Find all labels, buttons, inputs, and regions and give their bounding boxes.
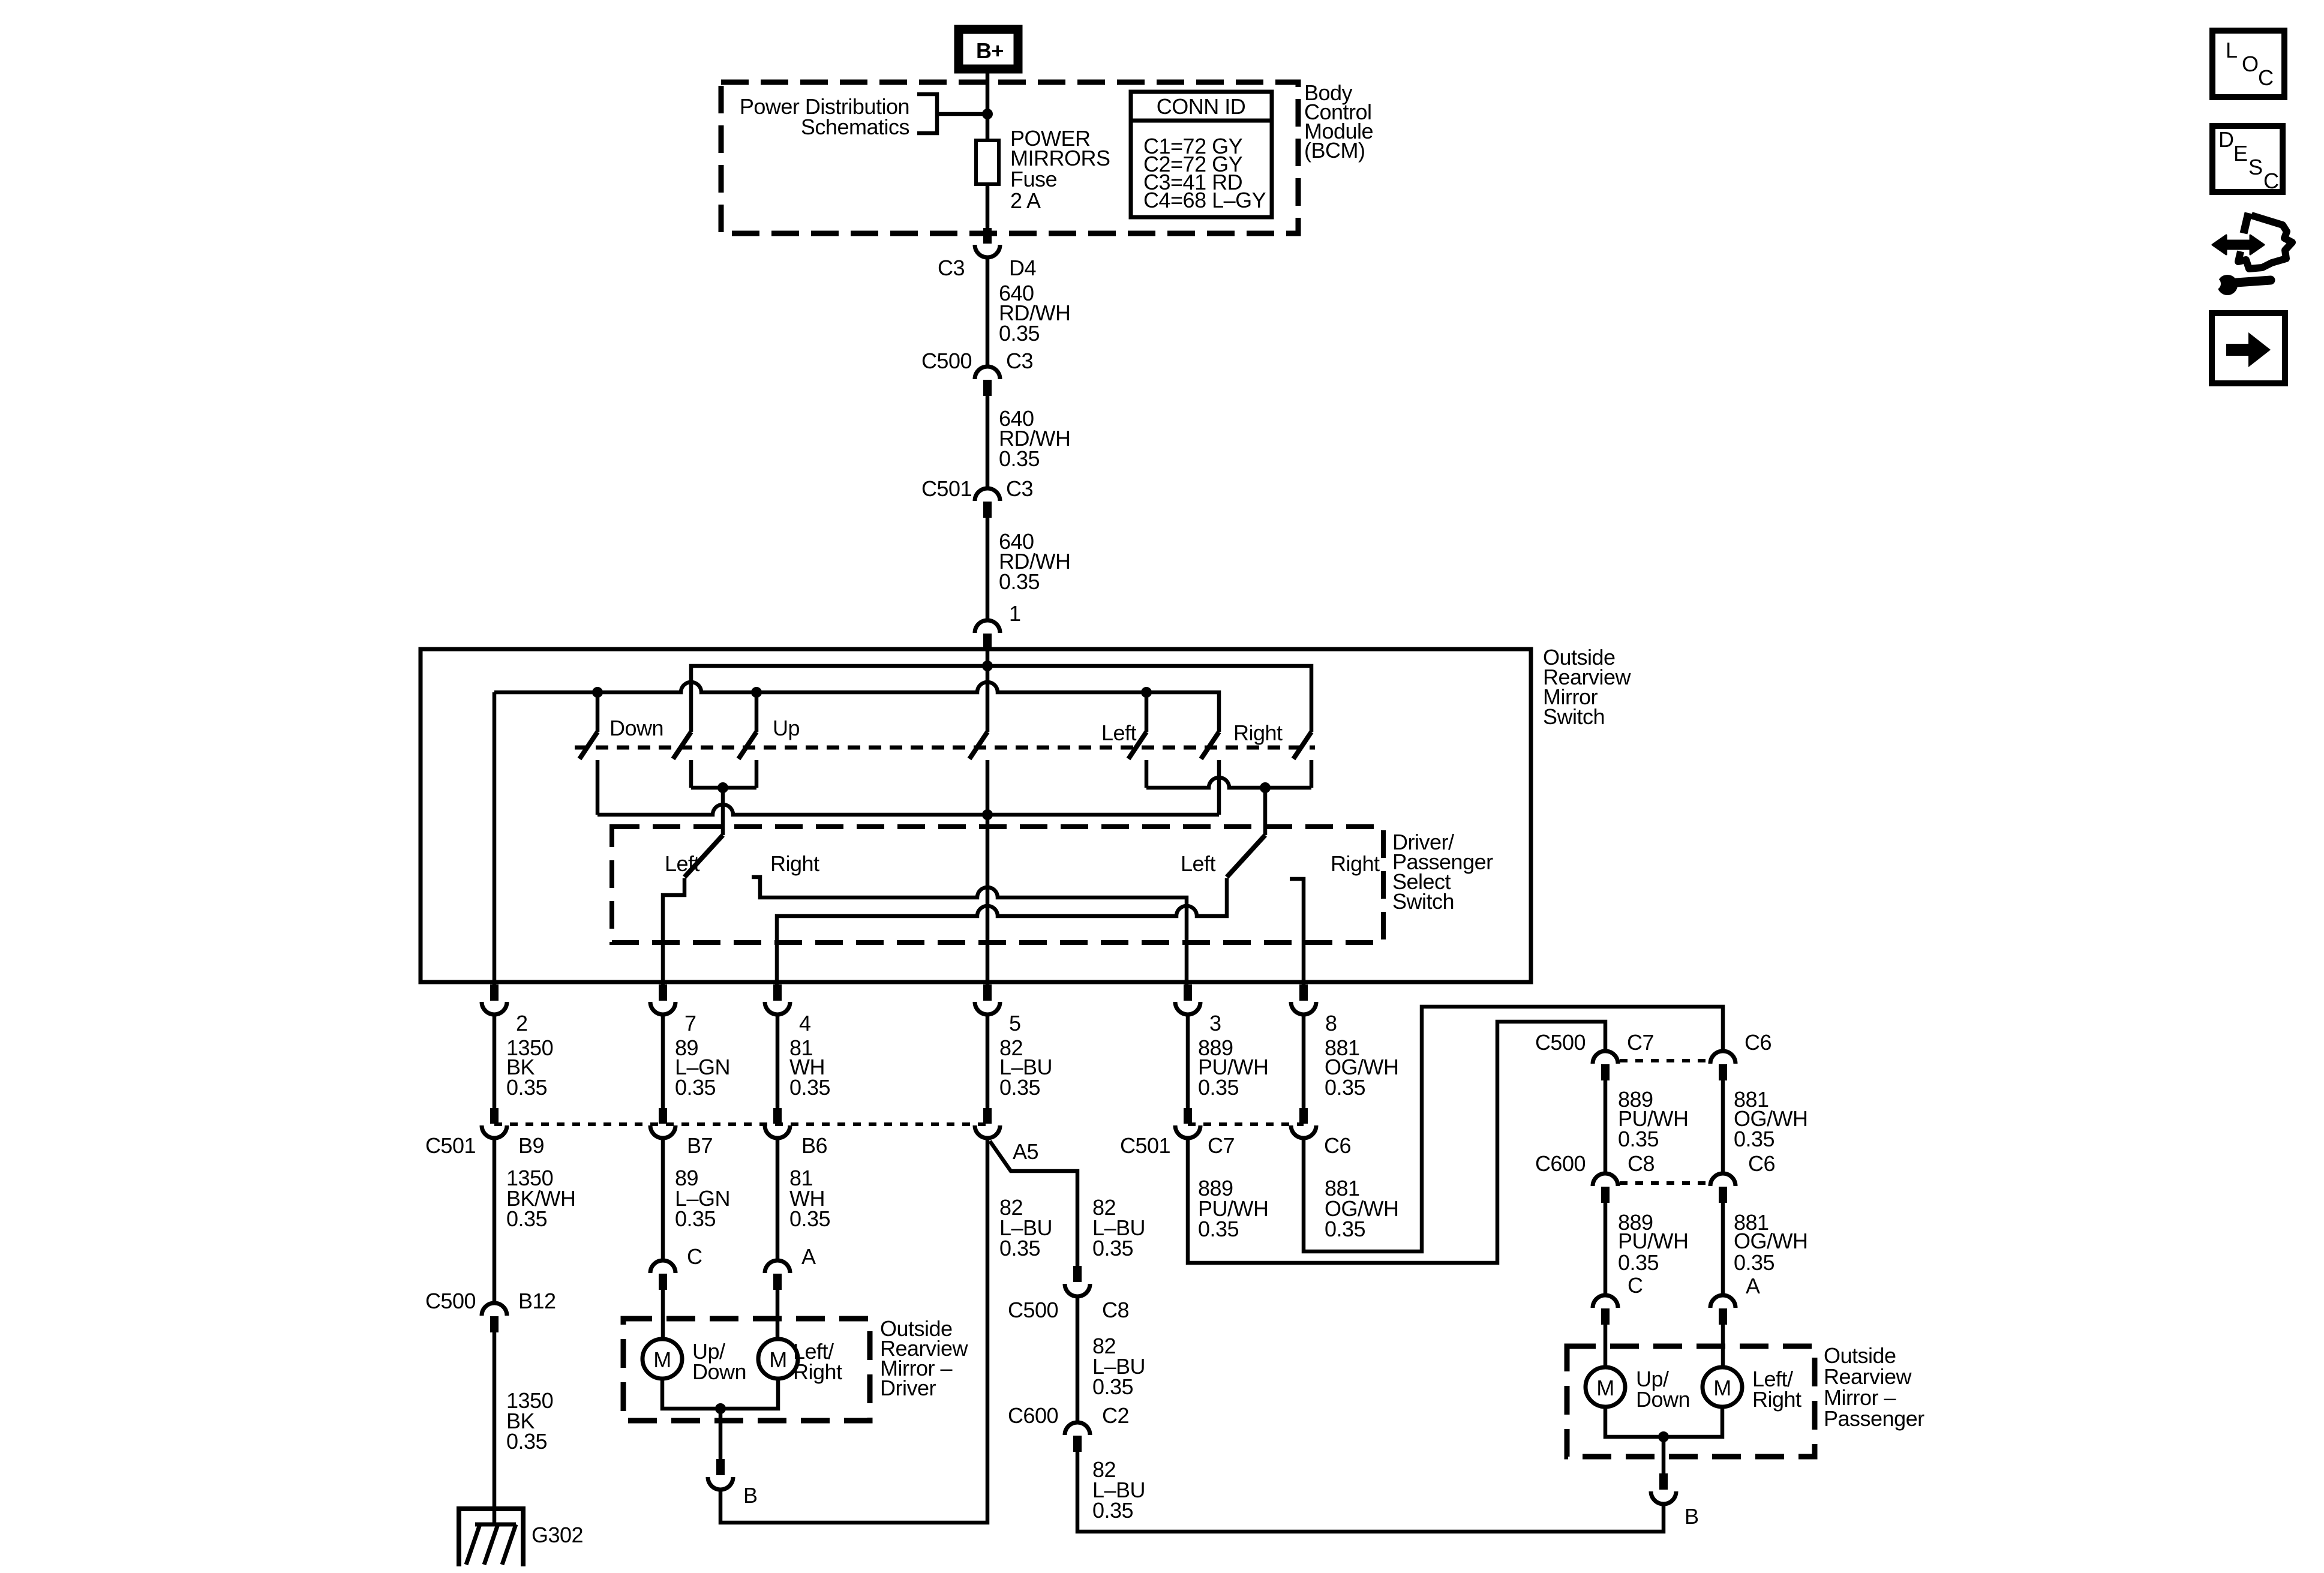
svg-text:2: 2 bbox=[516, 1011, 528, 1035]
connector A driver mirror bbox=[765, 1260, 790, 1290]
svg-text:OG/WH: OG/WH bbox=[1734, 1229, 1807, 1253]
svg-text:C6: C6 bbox=[1744, 1030, 1771, 1055]
connector C driver mirror bbox=[650, 1260, 675, 1290]
svg-text:Fuse: Fuse bbox=[1010, 167, 1057, 191]
connector C501 pin A5 bbox=[975, 1108, 1000, 1138]
wire pin 2 drop from rail B bbox=[493, 692, 497, 984]
label wire 82 L-BU 0.35 bbox=[1092, 1457, 1145, 1523]
motor M up/down driver bbox=[642, 1339, 682, 1379]
wire pin 3 to C501 bbox=[1186, 1014, 1190, 1109]
wire U1 bracket bottom bbox=[691, 786, 756, 790]
connector C3 pin D4 (BCM output) bbox=[975, 228, 1000, 257]
label wire 82 L-BU 0.35 bbox=[999, 1035, 1052, 1100]
wire 889 PU/WH C600 to C bbox=[1604, 1203, 1608, 1294]
Outside Rearview Mirror Switch box bbox=[421, 649, 1531, 982]
wire passenger common to connector B bbox=[1662, 1437, 1666, 1473]
junction dot Up contact bbox=[751, 687, 762, 698]
label Up/ Down bbox=[692, 1339, 746, 1384]
svg-text:2 A: 2 A bbox=[1010, 188, 1041, 213]
svg-text:5: 5 bbox=[1009, 1011, 1021, 1035]
wire Down upper stub bbox=[596, 692, 600, 732]
svg-text:M: M bbox=[1713, 1376, 1731, 1400]
label wire 82 L-BU 0.35 (left branch) bbox=[999, 1195, 1052, 1260]
svg-text:C500: C500 bbox=[921, 349, 972, 373]
svg-text:C3: C3 bbox=[938, 256, 965, 280]
label wire 1350 BK/WH 0.35 bbox=[506, 1166, 576, 1231]
svg-text:S: S bbox=[2248, 155, 2263, 179]
svg-text:A: A bbox=[801, 1244, 816, 1269]
svg-text:C: C bbox=[687, 1244, 702, 1269]
svg-text:0.35: 0.35 bbox=[675, 1206, 716, 1231]
label Outside Rearview Mirror - Passenger bbox=[1824, 1343, 1924, 1431]
wire rail B with hops bbox=[494, 682, 1219, 732]
wire 1350 BK to ground bbox=[493, 1332, 497, 1523]
wire pin 3 run to C500 C7 bbox=[1188, 1022, 1605, 1263]
label 640 RD/WH 0.35 bbox=[999, 529, 1070, 594]
svg-text:0.35: 0.35 bbox=[1618, 1127, 1659, 1151]
wire driver common to connector B bbox=[719, 1409, 723, 1459]
svg-text:Switch: Switch bbox=[1392, 889, 1454, 914]
label wire 81 WH 0.35 bbox=[789, 1035, 830, 1100]
wire pin 8 to C501 bbox=[1302, 1014, 1306, 1109]
label 640 RD/WH 0.35 bbox=[999, 281, 1070, 346]
connector B passenger mirror bbox=[1651, 1473, 1676, 1504]
wire C to passenger motor M up/down bbox=[1604, 1325, 1608, 1369]
svg-text:A: A bbox=[1746, 1274, 1760, 1298]
wire 640 RD/WH segment 1 bbox=[986, 257, 990, 367]
svg-text:C3: C3 bbox=[1006, 476, 1033, 501]
switch blade center vertical pair bbox=[673, 732, 691, 759]
wire driver B to A5 junction bbox=[720, 1137, 987, 1523]
connector C500 dashed segment C7-C6 bbox=[1620, 1059, 1710, 1062]
icon forward arrow box bbox=[2212, 313, 2285, 383]
junction dot Down contact bbox=[592, 687, 603, 698]
connector C500 pin C6 passenger bbox=[1710, 1051, 1736, 1080]
switch blade Down bbox=[580, 732, 597, 759]
svg-text:CONN ID: CONN ID bbox=[1157, 94, 1246, 119]
connector C500 pin C3 bbox=[975, 367, 1000, 396]
connector C501 pin B9 bbox=[482, 1108, 507, 1138]
label Outside Rearview Mirror Switch bbox=[1543, 645, 1632, 729]
svg-text:0.35: 0.35 bbox=[506, 1206, 547, 1231]
switch blade Left bbox=[1128, 732, 1146, 759]
junction dot node B+ feed bbox=[982, 109, 993, 119]
label wire 89 L-GN 0.35 bbox=[675, 1166, 730, 1231]
wire 640 RD/WH segment 2 bbox=[986, 396, 990, 488]
svg-text:4: 4 bbox=[799, 1011, 811, 1035]
svg-text:Up: Up bbox=[773, 716, 800, 740]
wire rail A bbox=[691, 666, 1311, 732]
wire main supply vertical into switch bbox=[986, 649, 990, 732]
label Left/ Right bbox=[793, 1339, 842, 1384]
wire select driver Right contact to pin 3 bbox=[752, 877, 1187, 984]
motor M up/down passenger bbox=[1586, 1367, 1625, 1407]
svg-text:C600: C600 bbox=[1008, 1403, 1058, 1428]
svg-text:0.35: 0.35 bbox=[1092, 1374, 1133, 1399]
svg-text:E: E bbox=[2233, 141, 2248, 166]
svg-text:0.35: 0.35 bbox=[999, 569, 1040, 594]
wire 881 OG/WH C600 to A bbox=[1721, 1203, 1725, 1294]
connector pin 7 of switch bbox=[650, 984, 675, 1014]
svg-text:0.35: 0.35 bbox=[789, 1075, 830, 1100]
connector C501 pin C7 bbox=[1175, 1108, 1200, 1138]
svg-text:O: O bbox=[2242, 52, 2259, 76]
connector C500 pin C7 passenger bbox=[1593, 1051, 1618, 1080]
junction dot U1 bbox=[717, 782, 728, 793]
label Power Distribution Schematics bbox=[740, 94, 909, 139]
svg-text:Driver: Driver bbox=[880, 1376, 936, 1400]
svg-text:Passenger: Passenger bbox=[1824, 1406, 1924, 1431]
svg-text:C6: C6 bbox=[1748, 1151, 1775, 1176]
wire pin 4 to connector A bbox=[776, 1138, 780, 1260]
connector C passenger mirror bbox=[1593, 1295, 1618, 1325]
connector C600 pin C6 passenger bbox=[1710, 1173, 1736, 1203]
svg-text:A5: A5 bbox=[1013, 1139, 1038, 1164]
mechanical linkage dashed line bbox=[575, 746, 1315, 750]
connector C501 pin B6 bbox=[765, 1108, 790, 1138]
svg-text:0.35: 0.35 bbox=[789, 1206, 830, 1231]
wire motor commons join driver bbox=[662, 1379, 778, 1409]
wire select 2 feed bbox=[1263, 788, 1268, 835]
label wire 82 L-BU 0.35 (right branch) bbox=[1092, 1195, 1145, 1260]
label wire 881 OG/WH 0.35 bbox=[1734, 1210, 1807, 1275]
svg-text:B+: B+ bbox=[976, 38, 1004, 63]
label wire 1350 BK 0.35 bbox=[506, 1035, 553, 1100]
junction dot rail A bbox=[982, 661, 993, 671]
svg-text:Left: Left bbox=[1181, 851, 1216, 876]
connector C501 pin C6 bbox=[1291, 1108, 1316, 1138]
switch blade center horizontal pair bbox=[1201, 732, 1219, 759]
switch blade Right bbox=[1293, 732, 1311, 759]
label Up/ Down bbox=[1636, 1367, 1690, 1412]
svg-text:Switch: Switch bbox=[1543, 704, 1605, 729]
wire 82 L-BU C500 to C600 bbox=[1076, 1296, 1080, 1422]
wire Left upper stub bbox=[1145, 692, 1149, 732]
select switch blade passenger bbox=[1227, 835, 1265, 877]
label wire 889 PU/WH 0.35 bbox=[1618, 1210, 1689, 1275]
wire pin 7 to C501 bbox=[661, 1014, 665, 1109]
wire lower contact stubs U1 bbox=[691, 760, 756, 788]
svg-text:1: 1 bbox=[1009, 601, 1021, 626]
svg-text:0.35: 0.35 bbox=[1325, 1075, 1365, 1100]
select switch blade driver bbox=[684, 835, 723, 877]
svg-text:C7: C7 bbox=[1208, 1133, 1235, 1158]
label wire 889 PU/WH 0.35 bbox=[1198, 1176, 1269, 1241]
connector C600 dashed segment C8-C6 bbox=[1620, 1181, 1710, 1185]
wire U2 bracket bottom with hop bbox=[1146, 778, 1311, 788]
svg-text:M: M bbox=[769, 1347, 787, 1372]
svg-text:0.35: 0.35 bbox=[999, 446, 1040, 471]
label 640 RD/WH 0.35 bbox=[999, 406, 1070, 471]
svg-text:C6: C6 bbox=[1324, 1133, 1351, 1158]
label wire 889 PU/WH 0.35 bbox=[1198, 1035, 1269, 1100]
Body Control Module (BCM) dashed box bbox=[721, 82, 1298, 233]
label wire 1350 BK 0.35 bbox=[506, 1388, 553, 1454]
svg-text:C7: C7 bbox=[1627, 1030, 1654, 1055]
svg-text:Right: Right bbox=[793, 1359, 842, 1384]
connector C501 dotted segment pins C7-C6 bbox=[1188, 1122, 1304, 1126]
wire lower contact stubs U2 bbox=[1146, 760, 1311, 788]
svg-text:0.35: 0.35 bbox=[999, 1075, 1040, 1100]
wire 1350 BK/WH to C500 bbox=[493, 1138, 497, 1303]
svg-text:B: B bbox=[743, 1483, 758, 1508]
wire select driver Left contact to pin 7 bbox=[663, 878, 684, 984]
svg-text:C: C bbox=[2258, 65, 2274, 90]
svg-text:M: M bbox=[653, 1347, 671, 1372]
svg-text:D: D bbox=[2218, 127, 2234, 152]
svg-text:0.35: 0.35 bbox=[999, 321, 1040, 346]
connector C501 dotted harness line bbox=[494, 1122, 987, 1126]
svg-text:C500: C500 bbox=[1535, 1030, 1586, 1055]
connector C500 pin B12 bbox=[482, 1303, 507, 1332]
wire A5 branch to C500 C8 bbox=[990, 1141, 1077, 1266]
label wire 881 OG/WH 0.35 bbox=[1325, 1035, 1398, 1100]
svg-text:C: C bbox=[1628, 1273, 1643, 1298]
wire 889 PU/WH C500 to C600 bbox=[1604, 1080, 1608, 1173]
junction dot driver motor common bbox=[715, 1403, 726, 1414]
label POWER MIRRORS Fuse 2 A bbox=[1010, 126, 1110, 213]
svg-text:0.35: 0.35 bbox=[1618, 1250, 1659, 1275]
svg-text:7: 7 bbox=[684, 1011, 696, 1035]
svg-text:Left: Left bbox=[665, 851, 700, 876]
svg-text:(BCM): (BCM) bbox=[1304, 138, 1365, 163]
label Outside Rearview Mirror - Driver bbox=[880, 1316, 969, 1400]
svg-text:0.35: 0.35 bbox=[1325, 1217, 1365, 1241]
svg-text:C4=68 L–GY: C4=68 L–GY bbox=[1143, 188, 1266, 212]
svg-text:0.35: 0.35 bbox=[506, 1429, 547, 1454]
wire select 1 feed bbox=[721, 788, 725, 835]
wire Up upper stub bbox=[755, 692, 759, 732]
Outside Rearview Mirror Passenger dashed box bbox=[1567, 1346, 1815, 1457]
connector C501 pin B7 bbox=[650, 1108, 675, 1138]
svg-text:Down: Down bbox=[609, 716, 663, 740]
svg-text:D4: D4 bbox=[1009, 256, 1036, 280]
wire A to passenger motor M left/right bbox=[1721, 1325, 1725, 1369]
wire pin 5 to C501 bbox=[986, 1014, 990, 1109]
CONN ID table bbox=[1131, 92, 1272, 217]
wire Down lower contact to rail C bbox=[596, 760, 600, 815]
wire center horizontal lower stub bbox=[1217, 760, 1221, 815]
connector A passenger mirror bbox=[1710, 1295, 1736, 1325]
wire B+ to fuse bbox=[986, 71, 990, 140]
label wire 881 OG/WH 0.35 bbox=[1325, 1176, 1398, 1241]
motor M left/right driver bbox=[758, 1339, 798, 1379]
svg-text:0.35: 0.35 bbox=[1734, 1127, 1774, 1151]
motor M left/right passenger bbox=[1703, 1367, 1742, 1407]
svg-text:L: L bbox=[2226, 38, 2238, 62]
connector pin 2 of switch bbox=[482, 984, 507, 1014]
label wire 881 OG/WH 0.35 bbox=[1734, 1087, 1807, 1151]
connector pin 8 of switch bbox=[1291, 984, 1316, 1014]
label Left/ Right bbox=[1752, 1367, 1801, 1412]
svg-text:Schematics: Schematics bbox=[801, 115, 909, 139]
svg-text:M: M bbox=[1596, 1376, 1614, 1400]
Driver/Passenger Select Switch dashed box bbox=[612, 827, 1383, 942]
battery feed B+ symbol bbox=[959, 29, 1018, 69]
svg-text:0.35: 0.35 bbox=[506, 1075, 547, 1100]
svg-text:Right: Right bbox=[1331, 851, 1380, 876]
label wire 89 L-GN 0.35 bbox=[675, 1035, 730, 1100]
wire passenger motor commons join bbox=[1605, 1406, 1722, 1437]
connector pin 4 of switch bbox=[765, 984, 790, 1014]
wire fuse to BCM connector C3 bbox=[986, 184, 990, 228]
svg-text:Right: Right bbox=[770, 851, 819, 876]
svg-text:Right: Right bbox=[1752, 1387, 1801, 1412]
icon LOC box bbox=[2212, 31, 2284, 97]
wire C to motor M up/down bbox=[661, 1290, 665, 1340]
label Driver/ Passenger Select Switch bbox=[1392, 830, 1493, 914]
svg-text:C3: C3 bbox=[1006, 349, 1033, 373]
svg-text:B7: B7 bbox=[687, 1133, 713, 1158]
svg-text:C600: C600 bbox=[1535, 1151, 1586, 1176]
svg-text:8: 8 bbox=[1325, 1011, 1337, 1035]
icon hand with arrow and wrench bbox=[2209, 213, 2292, 295]
Outside Rearview Mirror Driver dashed box bbox=[623, 1319, 870, 1421]
svg-text:G302: G302 bbox=[532, 1523, 583, 1547]
wire rail C with hop bbox=[597, 804, 1219, 815]
svg-text:0.35: 0.35 bbox=[1734, 1250, 1774, 1275]
bracket to Power Distribution Schematics bbox=[917, 94, 987, 133]
svg-text:C500: C500 bbox=[425, 1289, 476, 1313]
svg-text:C501: C501 bbox=[425, 1133, 476, 1158]
wire A to motor M left/right bbox=[776, 1290, 780, 1340]
junction dot U2 bbox=[1260, 782, 1271, 793]
ground G302 bbox=[459, 1509, 523, 1566]
connector pin 3 of switch bbox=[1175, 984, 1200, 1014]
switch blade Up bbox=[738, 732, 756, 759]
icon DESC box bbox=[2212, 126, 2283, 193]
wire select passenger Left contact to pin 4 bbox=[777, 878, 1227, 984]
svg-text:B6: B6 bbox=[801, 1133, 827, 1158]
svg-text:0.35: 0.35 bbox=[1198, 1217, 1239, 1241]
svg-text:C8: C8 bbox=[1628, 1151, 1655, 1176]
svg-text:PU/WH: PU/WH bbox=[1618, 1229, 1689, 1253]
label wire 889 PU/WH 0.35 bbox=[1618, 1087, 1689, 1151]
wire main vertical through rail C bbox=[986, 760, 990, 984]
junction dot Left contact bbox=[1141, 687, 1152, 698]
svg-text:C8: C8 bbox=[1102, 1298, 1129, 1322]
svg-text:C2: C2 bbox=[1102, 1403, 1129, 1428]
svg-text:B9: B9 bbox=[518, 1133, 544, 1158]
connector B driver mirror bbox=[708, 1459, 733, 1490]
wire pin 4 to C501 bbox=[776, 1014, 780, 1109]
label wire 81 WH 0.35 bbox=[789, 1166, 830, 1231]
svg-text:C501: C501 bbox=[1120, 1133, 1170, 1158]
wire pin 2 to C501 bbox=[493, 1014, 497, 1109]
label wire 82 L-BU 0.35 bbox=[1092, 1334, 1145, 1399]
svg-text:Down: Down bbox=[1636, 1387, 1690, 1412]
switch blade supply common bbox=[969, 732, 987, 759]
svg-text:C: C bbox=[2263, 169, 2279, 193]
label Body Control Module (BCM) bbox=[1304, 80, 1373, 163]
svg-text:0.35: 0.35 bbox=[675, 1075, 716, 1100]
svg-text:0.35: 0.35 bbox=[1092, 1498, 1133, 1523]
wire pin 8 run to C500 C6 bbox=[1304, 1007, 1723, 1251]
wire C2 to passenger mirror B bbox=[1077, 1452, 1664, 1532]
svg-text:B: B bbox=[1685, 1504, 1699, 1529]
svg-text:0.35: 0.35 bbox=[999, 1236, 1040, 1260]
svg-text:0.35: 0.35 bbox=[1198, 1075, 1239, 1100]
svg-text:C501: C501 bbox=[921, 476, 972, 501]
svg-text:B12: B12 bbox=[518, 1289, 556, 1313]
svg-text:3: 3 bbox=[1209, 1011, 1221, 1035]
connector pin 1 of mirror switch bbox=[975, 620, 1000, 650]
connector pin 5 of switch bbox=[975, 984, 1000, 1014]
svg-text:C500: C500 bbox=[1008, 1298, 1058, 1322]
svg-text:Right: Right bbox=[1233, 721, 1283, 745]
svg-text:0.35: 0.35 bbox=[1092, 1236, 1133, 1260]
connector C600 pin C2 bbox=[1065, 1422, 1090, 1452]
wire 881 OG/WH C500 to C600 bbox=[1721, 1080, 1725, 1173]
junction dot rail C bbox=[982, 809, 993, 820]
connector C500 pin C8 bbox=[1065, 1266, 1090, 1296]
svg-text:Down: Down bbox=[692, 1359, 746, 1384]
connector C600 pin C8 passenger bbox=[1593, 1173, 1618, 1203]
wire select passenger Right contact to pin 8 bbox=[1290, 879, 1304, 984]
connector C501 pin C3 bbox=[975, 488, 1000, 518]
fuse POWER MIRRORS Fuse 2 A bbox=[976, 140, 999, 184]
svg-text:Left: Left bbox=[1101, 721, 1137, 745]
wire 640 RD/WH segment 3 bbox=[986, 518, 990, 620]
junction dot passenger motor common bbox=[1658, 1431, 1669, 1442]
wire pin 7 to connector C bbox=[661, 1138, 665, 1260]
